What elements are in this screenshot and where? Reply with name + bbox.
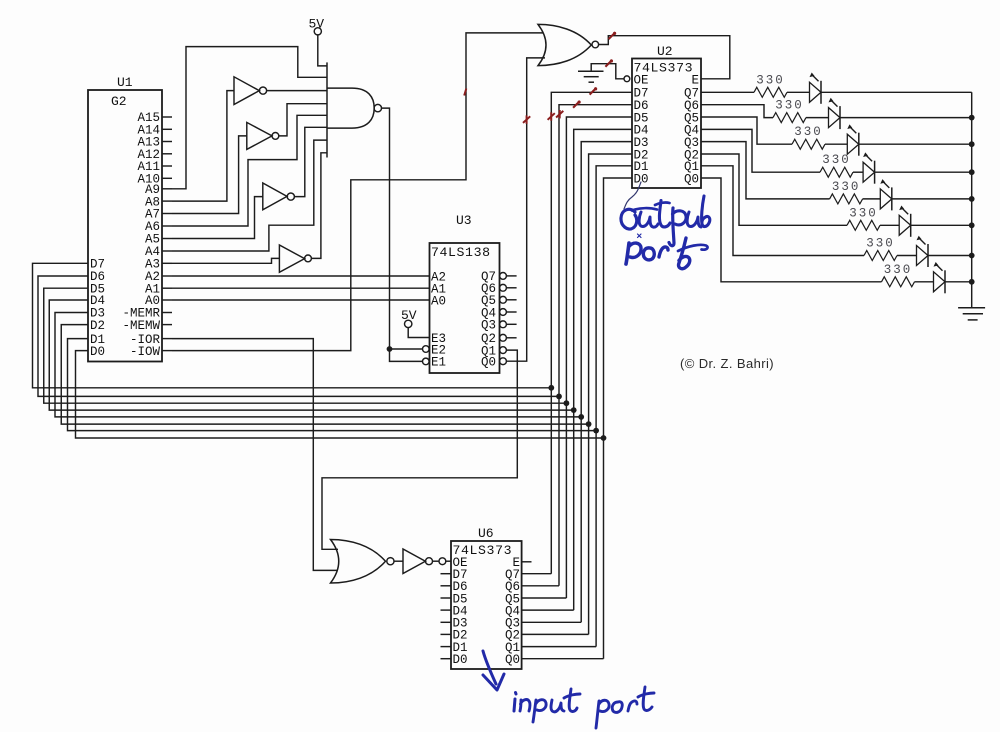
wire data bus D2 (U2 pin to U6 Q2): [589, 154, 632, 634]
NOR gate U7B (IOR read strobe): [331, 540, 395, 584]
LED D6: [880, 206, 972, 237]
svg-text:OE: OE: [634, 73, 649, 87]
junction D3: [578, 414, 584, 420]
svg-text:330: 330: [775, 99, 804, 113]
svg-text:E1: E1: [431, 356, 446, 370]
LED D5: [863, 179, 972, 210]
junction LED rail 3: [969, 141, 975, 147]
svg-text:-MEMW: -MEMW: [122, 319, 160, 333]
wire INV5 to U6 OE: [433, 560, 440, 562]
resistor R8 330: [882, 263, 915, 287]
wire U1 D0 to data bus: [76, 351, 604, 438]
power 5V (U3 E3): [401, 308, 430, 338]
wire data bus D6 (U2 pin to U6 Q6): [559, 105, 632, 586]
svg-text:-IOW: -IOW: [130, 345, 161, 359]
bubble U3 E2: [423, 346, 430, 353]
wire U2 Q2 to resistor R6: [701, 154, 847, 225]
text copyright: [680, 356, 774, 371]
wire U2 Q3 to resistor R5: [701, 142, 830, 199]
handwriting blue 'output port': [621, 182, 710, 269]
svg-text:D0: D0: [634, 172, 649, 186]
resistor R6 330: [847, 206, 880, 230]
LED D2: [806, 98, 972, 129]
junction LED rail 6: [969, 222, 975, 228]
wire LED common rail: [971, 92, 973, 307]
svg-text:A0: A0: [431, 294, 446, 308]
wire U6 Q6 to bus: [522, 585, 559, 587]
wire U2 Q6 to resistor R2: [701, 105, 773, 118]
NOR gate U7A (IOW write strobe): [538, 24, 599, 65]
annotation red tick on E wire: [609, 32, 617, 39]
svg-text:E: E: [691, 73, 699, 87]
LED D4: [853, 152, 972, 183]
junction D2: [586, 421, 592, 427]
junction D6: [556, 394, 562, 400]
svg-text:D0: D0: [90, 345, 105, 359]
junction D7: [548, 385, 554, 391]
junction LED rail 7: [969, 253, 975, 259]
svg-text:330: 330: [822, 153, 851, 167]
wire U2 Q5 to resistor R3: [701, 117, 792, 144]
junction LED rail 2: [969, 115, 975, 121]
svg-text:U3: U3: [456, 213, 472, 228]
wire U6 Q4 to bus: [522, 609, 574, 611]
svg-text:Q3: Q3: [481, 319, 496, 333]
wire U6 Q2 to bus: [522, 633, 589, 635]
svg-text:5V: 5V: [309, 17, 325, 32]
wire data bus D3 (U2 pin to U6 Q3): [581, 142, 632, 623]
IC U6 74LS373 input latch: [441, 526, 532, 669]
resistor R4 330: [820, 153, 853, 177]
bubble U3 E1: [423, 358, 430, 365]
junction D0: [601, 435, 607, 441]
wire NAND output to U3 E2/E1: [382, 108, 423, 361]
wire U1 D5 to data bus: [44, 288, 567, 403]
svg-text:5V: 5V: [401, 308, 417, 323]
IC U1 G2 CPU-bus chip: [88, 75, 172, 362]
svg-text:U2: U2: [657, 44, 673, 59]
wire A1 from U1 to U3 A1: [172, 287, 430, 289]
annotation red tick on D7 wire: [590, 87, 598, 94]
wire U3 Q0 to NOR1 input: [506, 58, 545, 361]
annotation red tick on IOW riser: [464, 89, 466, 96]
NAND gate U4 8-input: [327, 62, 381, 157]
wire U3 Q1 to NOR2 input: [322, 350, 517, 549]
wire data bus D1 (U2 pin to U6 Q1): [596, 166, 632, 647]
svg-text:Q0: Q0: [684, 172, 699, 186]
LED D1: [787, 73, 972, 104]
resistor R1 330: [754, 73, 787, 97]
svg-text:(© Dr. Z. Bahri): (© Dr. Z. Bahri): [680, 356, 774, 371]
IC U2 74LS373 output latch: [632, 44, 701, 188]
wire U1 D4 to data bus: [49, 300, 573, 410]
wire U1 D6 to data bus: [38, 276, 559, 396]
svg-text:74LS138: 74LS138: [431, 245, 491, 260]
svg-text:330: 330: [756, 73, 785, 87]
wire U6 Q7 to bus: [522, 573, 552, 575]
svg-text:G2: G2: [111, 94, 127, 109]
svg-text:330: 330: [866, 237, 895, 251]
svg-text:U6: U6: [478, 526, 494, 541]
svg-text:Q0: Q0: [505, 653, 520, 667]
wire data bus D7 (U2 pin to U6 Q7): [551, 92, 632, 573]
resistor R3 330: [792, 125, 825, 149]
wire data bus D0 (U2 pin to U6 Q0): [604, 178, 633, 659]
wire U2 Q0 to resistor R8: [701, 178, 882, 282]
inverter INV3 (A5): [263, 127, 327, 210]
junction D4: [571, 407, 577, 413]
wire U6 Q1 to bus: [522, 646, 597, 648]
svg-text:330: 330: [832, 180, 861, 194]
svg-text:330: 330: [794, 125, 823, 139]
junction LED rail 4: [969, 169, 975, 175]
wire U6 Q3 to bus: [522, 621, 582, 623]
IC U3 74LS138 decoder: [430, 213, 517, 373]
inverter INV5: [394, 549, 433, 574]
inverter INV4 (A3): [279, 153, 327, 272]
wire U6 Q0 to bus: [522, 658, 604, 660]
wire U2 Q1 to resistor R7: [701, 166, 864, 256]
resistor R5 330: [830, 180, 863, 204]
wire NOR1 output to U2 E: [599, 36, 730, 79]
wire U1 D2 to data bus: [61, 325, 588, 425]
resistor R2 330: [773, 99, 806, 123]
wire -IOR from U1 to NOR2 input: [172, 339, 338, 571]
svg-text:330: 330: [849, 206, 878, 220]
junction D5: [564, 400, 570, 406]
annotation red tick on D6 wire: [573, 101, 581, 108]
annotation red cross on Q0 riser: [523, 115, 530, 123]
LED D3: [825, 124, 972, 155]
wire data bus D4 (U2 pin to U6 Q4): [574, 129, 632, 610]
inverter INV1 (A8): [234, 77, 327, 105]
annotation red tick on OE wire: [605, 59, 613, 66]
svg-text:Q0: Q0: [481, 356, 496, 370]
wire A3 from U1 to inverter U5D input: [172, 258, 279, 263]
junction LED rail 5: [969, 196, 975, 202]
ground (U2 OE): [578, 71, 604, 82]
wire data bus D5 (U2 pin to U6 Q5): [566, 117, 632, 598]
wire -IOW from U1 to NOR1 input: [172, 33, 543, 351]
wire U6 Q5 to bus: [522, 597, 567, 599]
wire A0 from U1 to U3 A0: [172, 299, 430, 301]
annotation red cross on bus D7: [548, 112, 555, 120]
junction LED rail 8: [969, 279, 975, 285]
bubble U6 OE: [439, 558, 451, 565]
wire A4 from U1 to NAND input 7: [172, 140, 327, 251]
wire A5 from U1 to inverter U5C input: [172, 197, 263, 239]
wire ground to U2 OE: [591, 64, 630, 82]
wire A8 from U1 to inverter U5A input: [172, 91, 234, 202]
wire U2 Q7 to resistor R1: [701, 91, 754, 93]
resistor R7 330: [864, 237, 897, 261]
wire A9 from U1 to NAND input 2: [172, 47, 327, 189]
inverter INV2 (A7): [247, 104, 327, 150]
annotation red cross on bus D6: [556, 110, 563, 118]
wire A7 from U1 to inverter U5B input: [172, 136, 247, 214]
handwriting blue 'input port' with arrow: [483, 651, 654, 728]
power 5V (NAND pull-up): [309, 17, 328, 66]
wire U2 Q4 to resistor R4: [701, 129, 820, 172]
svg-text:U1: U1: [117, 75, 133, 90]
svg-text:D2: D2: [90, 319, 105, 333]
LED D8: [915, 262, 972, 293]
svg-text:330: 330: [884, 263, 913, 277]
wire U1 D3 to data bus: [55, 313, 581, 417]
LED D7: [897, 236, 972, 267]
wire A6 from U1 to NAND input 5: [172, 115, 327, 226]
junction D1: [593, 428, 599, 434]
wire A2 from U1 to U3 A2: [172, 275, 430, 277]
wire U1 D7 to data bus: [33, 263, 552, 388]
ground (LED rail): [958, 308, 985, 320]
svg-text:D0: D0: [453, 653, 468, 667]
wire U1 D1 to data bus: [68, 339, 597, 431]
